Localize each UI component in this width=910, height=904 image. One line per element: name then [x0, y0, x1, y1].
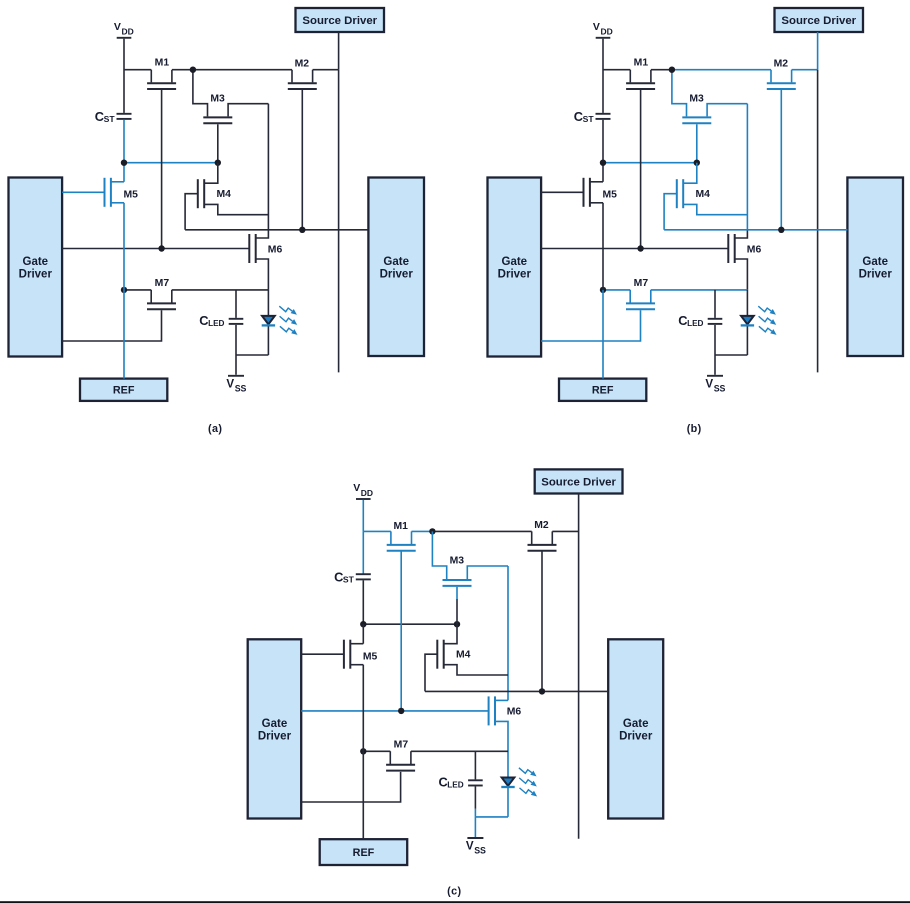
wire M5 source to REF node (a)	[123, 203, 125, 290]
svg-text:V: V	[353, 482, 360, 494]
wire VDD stem (a)	[123, 39, 125, 113]
node M1 gate junction (c)	[398, 708, 404, 714]
wire row to right gate driver (a)	[185, 229, 368, 231]
svg-text:ST: ST	[583, 114, 595, 124]
svg-text:(b): (b)	[687, 423, 702, 435]
svg-text:ST: ST	[104, 114, 116, 124]
wire LED cathode lead (a)	[267, 326, 269, 355]
block REF (c)	[320, 839, 408, 865]
block Gate Driver left (c)	[248, 639, 302, 818]
capacitor CST (c)	[356, 574, 371, 579]
svg-text:DD: DD	[601, 27, 613, 37]
svg-text:M3: M3	[689, 93, 704, 104]
node A junction (a)	[121, 160, 127, 166]
wire REF node to REF box (c)	[362, 751, 364, 839]
svg-text:Driver: Driver	[498, 269, 532, 281]
svg-text:M1: M1	[634, 58, 649, 69]
svg-text:M5: M5	[603, 190, 618, 201]
wire source driver line upper (b)	[817, 32, 819, 70]
wire rail M1 to node J1 (a)	[172, 69, 193, 71]
svg-text:M6: M6	[507, 706, 522, 717]
bottom rule	[0, 901, 910, 903]
wire node vertical right (a)	[267, 104, 269, 230]
svg-text:M7: M7	[155, 278, 170, 289]
wire M4 source run (c)	[444, 665, 508, 675]
transistor M4 (b)	[677, 179, 683, 208]
wire VDD stem (b)	[602, 39, 604, 113]
node J1 junction (c)	[429, 528, 435, 534]
node B junction (a)	[215, 160, 221, 166]
transistor M3 (c)	[443, 580, 472, 586]
transistor M7 (a)	[147, 290, 176, 309]
wire M3 gate lead (a)	[217, 124, 219, 162]
wire M7 row right (c)	[411, 750, 508, 752]
transistor M4 (a)	[198, 179, 204, 208]
wire M7 gate lead (c)	[301, 772, 400, 802]
node REF junction (a)	[121, 287, 127, 293]
transistor M6 (a)	[249, 234, 255, 263]
wire row to right gate driver (c)	[425, 690, 608, 692]
wire node A to M5 drain (b)	[602, 163, 604, 182]
svg-text:M7: M7	[394, 740, 409, 751]
wire LED anode lead (b)	[746, 290, 748, 317]
wire source driver line lower (b)	[817, 70, 819, 373]
svg-text:Driver: Driver	[380, 268, 414, 280]
power VDD terminal (c)	[353, 482, 373, 499]
node REF junction (c)	[360, 748, 366, 754]
svg-text:V: V	[705, 378, 713, 391]
svg-text:M1: M1	[155, 58, 170, 69]
wire M3 source lead (b)	[707, 104, 747, 117]
transistor M5 (c)	[344, 640, 350, 669]
wire M6 gate row (b)	[541, 248, 728, 250]
svg-text:M3: M3	[450, 556, 465, 567]
node A junction (b)	[600, 160, 606, 166]
wire M7 gate lead (b)	[541, 310, 640, 341]
svg-text:Gate: Gate	[862, 256, 888, 268]
wire M4 gate loop (a)	[185, 194, 198, 230]
capacitor CST (a)	[117, 114, 132, 119]
wire source driver line upper (a)	[338, 32, 340, 70]
wire M6 source lead (a)	[256, 259, 269, 290]
svg-text:DD: DD	[122, 27, 134, 37]
wire M3 drain lead (a)	[193, 70, 208, 117]
wire REF node to REF box (b)	[602, 290, 604, 379]
power VSS terminal (b)	[705, 355, 725, 394]
wire VDD stem (c)	[362, 500, 364, 532]
svg-text:LED: LED	[447, 780, 463, 789]
wire row to right gate driver (b)	[664, 229, 847, 231]
svg-text:Gate: Gate	[502, 256, 528, 268]
svg-text:V: V	[114, 21, 121, 33]
wire source driver line (c)	[578, 494, 580, 839]
wire M5 gate row (b)	[541, 191, 583, 193]
wire M6 gate row left (c)	[301, 710, 401, 712]
block Gate Driver left (a)	[9, 178, 63, 357]
wire rail M1 to node J1 (b)	[651, 69, 672, 71]
svg-text:SS: SS	[714, 384, 726, 394]
wire M3 source lead (a)	[228, 104, 268, 117]
node M2 gate junction (c)	[539, 688, 545, 694]
label CLED (a)	[199, 313, 224, 328]
wire M4 gate loop (c)	[425, 654, 437, 691]
svg-text:SS: SS	[235, 384, 247, 394]
transistor M2 (c)	[528, 531, 557, 550]
wire M6 gate row (a)	[62, 248, 249, 250]
wire rail J1 to M2 (a)	[193, 69, 292, 71]
wire source driver line lower (a)	[338, 70, 340, 373]
wire rail M1 to J1 (c)	[412, 530, 433, 532]
svg-text:M4: M4	[217, 189, 232, 200]
wire M2 gate lead (b)	[780, 90, 782, 230]
node B junction (c)	[454, 621, 460, 627]
label CST (c)	[334, 570, 355, 585]
wire node row (c)	[363, 623, 457, 625]
node B junction (b)	[694, 160, 700, 166]
wire M5 source jog (b)	[590, 202, 603, 204]
power VSS terminal (c)	[466, 817, 486, 856]
wire M1 gate lead (c)	[400, 552, 402, 711]
wire CLED to VSS corner (c)	[474, 809, 476, 817]
svg-text:(a): (a)	[208, 423, 222, 435]
capacitor CLED (c)	[468, 751, 483, 809]
wire M5 drain jog (a)	[111, 181, 124, 183]
svg-text:M3: M3	[210, 93, 225, 104]
label CST (b)	[574, 109, 595, 124]
svg-text:M7: M7	[634, 278, 649, 289]
wire M6 gate row right (c)	[401, 710, 488, 712]
svg-text:ST: ST	[343, 574, 355, 584]
wire CST stem upper (c)	[362, 531, 364, 574]
capacitor CLED (a)	[229, 290, 244, 355]
block Gate Driver left (b)	[488, 178, 542, 357]
svg-text:Driver: Driver	[619, 730, 653, 742]
node M2 gate junction (a)	[299, 227, 305, 233]
wire rail M2 to source line (b)	[792, 69, 818, 71]
svg-text:M4: M4	[456, 649, 471, 660]
transistor M5 (a)	[105, 178, 111, 207]
svg-text:REF: REF	[113, 385, 135, 397]
wire M2 gate lead (a)	[301, 90, 303, 230]
svg-text:V: V	[466, 840, 474, 853]
svg-text:Gate: Gate	[623, 718, 649, 730]
svg-text:V: V	[226, 378, 234, 391]
power VSS terminal (a)	[226, 355, 246, 394]
wire M3 gate stub (c)	[456, 587, 458, 599]
svg-text:M2: M2	[295, 58, 310, 69]
wire M7 row left (a)	[124, 289, 151, 291]
transistor M1 (c)	[387, 531, 416, 550]
svg-text:M2: M2	[534, 520, 549, 531]
wire node row A-B (a)	[124, 162, 218, 164]
wire rail VDD to M1 (b)	[603, 69, 630, 71]
transistor M4 (c)	[437, 640, 443, 669]
transistor M2 (b)	[767, 70, 796, 89]
svg-text:Source Driver: Source Driver	[302, 15, 377, 27]
LED diode (a)	[262, 316, 275, 326]
svg-text:LED: LED	[208, 319, 224, 328]
wire rail VDD to M1 (a)	[124, 69, 151, 71]
svg-text:DD: DD	[361, 488, 373, 498]
svg-text:M6: M6	[268, 245, 283, 256]
wire M5 source vertical (c)	[362, 665, 364, 752]
wire CST to node row (c)	[362, 580, 364, 624]
block Source Driver (a)	[296, 8, 385, 32]
wire M4 drain lead (a)	[204, 163, 218, 184]
wire M4 drain lead (c)	[444, 624, 457, 644]
svg-text:M6: M6	[747, 245, 762, 256]
svg-text:Gate: Gate	[23, 256, 49, 268]
svg-text:SS: SS	[474, 846, 486, 856]
wire M5 drain jog (b)	[590, 181, 603, 183]
wire M5 source jog (a)	[111, 202, 124, 204]
wire rail VDD to M1 (c)	[363, 530, 391, 532]
node M2 gate junction (b)	[778, 227, 784, 233]
block Source Driver (c)	[535, 469, 623, 493]
svg-text:Gate: Gate	[262, 718, 288, 730]
transistor M7 (c)	[386, 751, 415, 770]
node A junction (c)	[360, 621, 366, 627]
svg-text:Source Driver: Source Driver	[781, 15, 856, 27]
wire node vertical right (b)	[746, 104, 748, 230]
svg-text:M2: M2	[774, 58, 789, 69]
svg-text:M4: M4	[696, 189, 711, 200]
transistor M2 (a)	[288, 70, 317, 89]
LED light rays (a)	[279, 306, 297, 335]
capacitor CST (b)	[596, 114, 611, 119]
wire M3 gate to node (c)	[456, 599, 458, 624]
block Gate Driver right (b)	[847, 178, 903, 357]
wire rail J1 to M2 (c)	[432, 530, 531, 532]
svg-text:Driver: Driver	[258, 730, 292, 742]
block REF (a)	[80, 379, 167, 401]
label CST (a)	[95, 109, 116, 124]
wire M5 gate row (a)	[62, 191, 104, 193]
wire M3 drain lead (c)	[432, 531, 446, 579]
wire LED anode lead (a)	[267, 290, 269, 317]
block Gate Driver right (c)	[608, 639, 663, 818]
wire M4 source run (a)	[204, 204, 268, 214]
svg-text:Gate: Gate	[383, 256, 409, 268]
wire LED cathode lead (c)	[507, 788, 509, 817]
wire M4 gate loop (b)	[664, 194, 677, 230]
wire node row A-B (b)	[603, 162, 697, 164]
wire M7 row left (b)	[603, 289, 630, 291]
wire M7 gate lead (a)	[62, 310, 161, 341]
wire M4 drain lead (b)	[683, 163, 697, 184]
svg-text:M5: M5	[363, 651, 378, 662]
wire M5 drain jog (c)	[350, 643, 363, 645]
LED light rays (b)	[758, 306, 776, 335]
wire M7 row right (a)	[172, 289, 269, 291]
capacitor CLED (b)	[708, 290, 723, 355]
wire node A to M5 drain (c)	[362, 624, 364, 644]
wire M1 gate lead (b)	[640, 90, 642, 249]
wire M6 drain lead (a)	[256, 230, 269, 238]
wire bottom row (a)	[236, 354, 268, 356]
wire bottom row (b)	[715, 354, 747, 356]
svg-text:M5: M5	[124, 190, 139, 201]
svg-text:REF: REF	[592, 385, 614, 397]
svg-text:M1: M1	[393, 521, 408, 532]
svg-text:Driver: Driver	[859, 268, 893, 280]
wire rail M2 to source line (a)	[313, 69, 339, 71]
wire M6 source lead (c)	[495, 721, 508, 777]
wire CST to node A (a)	[123, 120, 125, 163]
wire M3 gate lead (b)	[696, 124, 698, 162]
svg-text:Source Driver: Source Driver	[541, 477, 616, 489]
wire rail J1 to M2 (b)	[672, 69, 771, 71]
wire M6 drain lead (b)	[735, 230, 748, 238]
wire M6 drain jog (c)	[495, 699, 508, 701]
wire node A to M5 drain (a)	[123, 163, 125, 182]
wire bottom row (c)	[475, 816, 508, 818]
wire M3 drain lead (b)	[672, 70, 687, 117]
wire right vertical (c)	[507, 566, 509, 700]
node M1 gate junction (b)	[637, 245, 643, 251]
LED light rays (c)	[519, 768, 537, 797]
transistor M3 (a)	[203, 117, 232, 123]
wire M7 row left (c)	[363, 750, 390, 752]
block REF (b)	[559, 379, 646, 401]
power VDD terminal (a)	[114, 21, 134, 38]
label CLED (c)	[439, 775, 464, 790]
LED diode (b)	[741, 316, 754, 326]
transistor M3 (b)	[682, 117, 711, 123]
wire M5 gate row (c)	[301, 653, 344, 655]
wire M7 row right (b)	[651, 289, 748, 291]
wire rail M2 to source line (c)	[552, 530, 578, 532]
svg-text:LED: LED	[687, 319, 703, 328]
wire REF node to REF box (a)	[123, 290, 125, 379]
node M1 gate junction (a)	[158, 245, 164, 251]
label CLED (b)	[678, 313, 703, 328]
wire M6 source lead (b)	[735, 259, 748, 290]
transistor M5 (b)	[584, 178, 590, 207]
power VDD terminal (b)	[593, 21, 613, 38]
transistor M7 (b)	[626, 290, 655, 309]
svg-text:(c): (c)	[447, 885, 461, 897]
wire M5 source jog (c)	[350, 664, 363, 666]
wire M3 source lead (c)	[467, 566, 508, 579]
transistor M1 (b)	[626, 70, 655, 89]
wire M2 gate lead (c)	[541, 552, 543, 692]
svg-text:REF: REF	[353, 847, 375, 859]
LED diode (c)	[501, 778, 514, 788]
wire LED cathode lead (b)	[746, 326, 748, 355]
wire M4 source run (b)	[683, 204, 747, 214]
transistor M1 (a)	[147, 70, 176, 89]
node J1 junction (a)	[190, 67, 196, 73]
transistor M6 (c)	[489, 696, 495, 725]
svg-text:Driver: Driver	[19, 269, 53, 281]
wire M1 gate lead (a)	[161, 90, 163, 249]
wire CST to node A (b)	[602, 120, 604, 163]
block Gate Driver right (a)	[368, 178, 424, 357]
node J1 junction (b)	[669, 67, 675, 73]
node REF junction (b)	[600, 287, 606, 293]
svg-text:V: V	[593, 21, 600, 33]
wire M5 source to REF node (b)	[602, 203, 604, 290]
block Source Driver (b)	[775, 8, 864, 32]
transistor M6 (b)	[728, 234, 734, 263]
